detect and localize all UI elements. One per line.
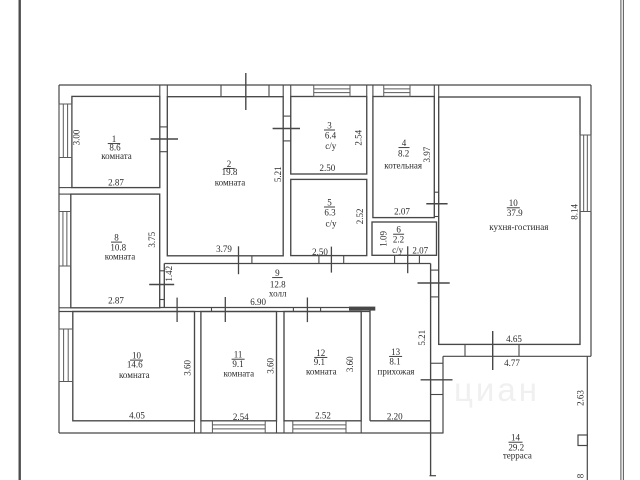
svg-text:5.21: 5.21 xyxy=(273,166,283,182)
svg-text:3.75: 3.75 xyxy=(147,231,157,247)
svg-text:2.54: 2.54 xyxy=(354,129,364,145)
svg-text:с/у: с/у xyxy=(326,219,337,229)
svg-text:2.07: 2.07 xyxy=(412,246,428,256)
svg-text:4.05: 4.05 xyxy=(129,411,145,421)
svg-text:3.60: 3.60 xyxy=(345,356,355,372)
svg-text:8.14: 8.14 xyxy=(570,204,580,220)
svg-text:6: 6 xyxy=(396,225,401,235)
svg-text:комната: комната xyxy=(105,251,136,261)
svg-text:2.63: 2.63 xyxy=(575,390,585,406)
svg-text:3.97: 3.97 xyxy=(422,146,432,162)
svg-text:2.87: 2.87 xyxy=(108,178,124,188)
svg-text:6.90: 6.90 xyxy=(250,297,266,307)
svg-text:6.4: 6.4 xyxy=(325,130,337,140)
svg-text:2.20: 2.20 xyxy=(387,411,403,421)
svg-text:3.79: 3.79 xyxy=(216,244,232,254)
svg-text:3.60: 3.60 xyxy=(183,359,193,375)
svg-text:5: 5 xyxy=(327,197,332,207)
svg-text:8: 8 xyxy=(576,473,586,478)
svg-text:2.52: 2.52 xyxy=(315,410,331,420)
svg-text:8.2: 8.2 xyxy=(398,148,409,158)
svg-text:1.42: 1.42 xyxy=(164,266,174,282)
svg-text:комната: комната xyxy=(224,368,255,378)
svg-text:котельная: котельная xyxy=(384,160,422,170)
svg-text:8.1: 8.1 xyxy=(389,357,400,367)
svg-text:2.2: 2.2 xyxy=(393,234,404,244)
svg-text:6.3: 6.3 xyxy=(324,208,336,218)
svg-text:13: 13 xyxy=(391,347,401,357)
svg-text:прихожая: прихожая xyxy=(378,366,415,376)
svg-text:2.87: 2.87 xyxy=(108,296,124,306)
svg-text:холл: холл xyxy=(269,289,287,299)
svg-text:4: 4 xyxy=(402,138,407,148)
svg-text:1.09: 1.09 xyxy=(379,231,389,247)
svg-text:комната: комната xyxy=(119,370,150,380)
svg-text:3: 3 xyxy=(327,120,332,130)
svg-text:10: 10 xyxy=(509,198,519,208)
svg-text:14.6: 14.6 xyxy=(127,360,143,370)
svg-text:комната: комната xyxy=(101,151,132,161)
svg-text:4.77: 4.77 xyxy=(504,358,520,368)
svg-text:с/у: с/у xyxy=(325,141,336,151)
svg-text:2.52: 2.52 xyxy=(355,209,365,225)
svg-text:терраса: терраса xyxy=(503,451,532,461)
svg-text:19.8: 19.8 xyxy=(222,167,238,177)
svg-text:кухня-гостиная: кухня-гостиная xyxy=(489,222,548,232)
svg-text:3.00: 3.00 xyxy=(71,129,81,145)
svg-text:2.50: 2.50 xyxy=(320,163,336,173)
svg-text:3.60: 3.60 xyxy=(265,358,275,374)
svg-text:циан: циан xyxy=(454,371,540,408)
svg-text:4.65: 4.65 xyxy=(506,334,522,344)
svg-text:2.50: 2.50 xyxy=(312,247,328,257)
svg-text:комната: комната xyxy=(215,178,246,188)
svg-text:14: 14 xyxy=(511,433,521,443)
svg-text:8: 8 xyxy=(114,233,119,243)
svg-text:комната: комната xyxy=(306,367,337,377)
svg-text:с/у: с/у xyxy=(392,245,403,255)
svg-text:2.54: 2.54 xyxy=(233,412,249,422)
svg-text:5.21: 5.21 xyxy=(417,330,427,346)
svg-text:9: 9 xyxy=(275,268,280,278)
svg-text:2.07: 2.07 xyxy=(394,207,410,217)
svg-text:37.9: 37.9 xyxy=(507,208,523,218)
